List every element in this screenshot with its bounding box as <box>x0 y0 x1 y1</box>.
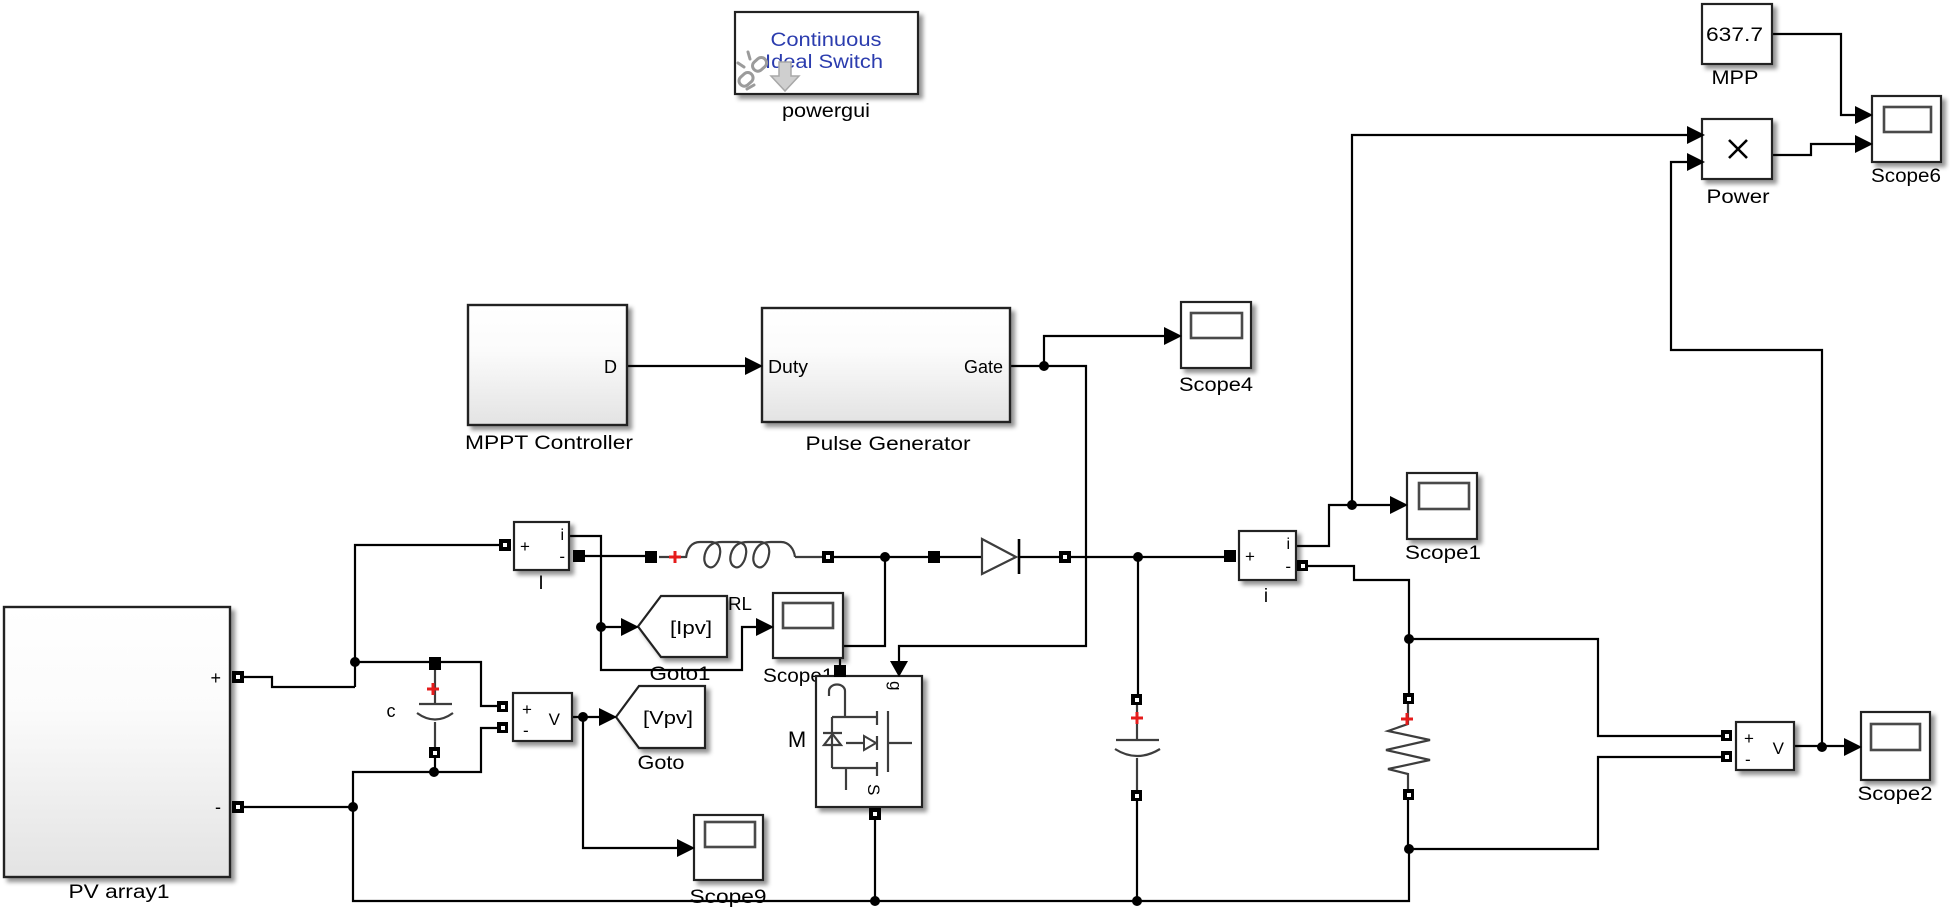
wire node K to Scope9 <box>583 717 679 848</box>
svg-text:PV array1: PV array1 <box>69 882 170 903</box>
port inductor right <box>822 551 834 563</box>
subsystem block PV array1 <box>4 607 230 877</box>
node D bottom rail mosfet <box>870 896 880 906</box>
svg-text:c: c <box>387 701 396 721</box>
svg-text:D: D <box>604 357 617 377</box>
wire node A to capacitor c top <box>355 661 431 663</box>
port MOSFET source <box>869 808 881 820</box>
arrowhead into Scope9 <box>677 839 695 857</box>
svg-text:i: i <box>1264 586 1268 607</box>
svg-text:S: S <box>864 784 883 795</box>
wire node J to V2 minus <box>1409 757 1722 849</box>
port capacitor c top <box>429 657 441 670</box>
voltage measurement Vpv <box>513 693 572 741</box>
port I1 minus output <box>573 550 585 562</box>
wire inductor right to diode left <box>833 556 930 558</box>
svg-text:Scope4: Scope4 <box>1179 375 1253 396</box>
goto tag Goto1 Ipv <box>638 596 727 657</box>
subsystem block Pulse Generator <box>762 308 1010 422</box>
port V2 minus <box>1721 751 1732 762</box>
goto tag Goto Vpv <box>616 686 705 748</box>
powergui block <box>735 12 918 94</box>
wire Scope2 junction up to Power input 2 <box>1671 162 1822 747</box>
wire i2 minus to node I <box>1308 566 1409 639</box>
svg-text:-: - <box>523 721 529 740</box>
scope Scope9 <box>694 815 763 880</box>
arrowhead into MOSFET gate <box>890 661 908 677</box>
svg-text:Pulse Generator: Pulse Generator <box>806 434 972 455</box>
wire node I to V2 plus <box>1409 639 1722 736</box>
wire node A up to I1 input <box>355 545 500 687</box>
svg-text:Gate: Gate <box>964 357 1003 377</box>
node E bottom rail capacitor <box>1132 896 1142 906</box>
node Scope2 junction <box>1817 742 1827 752</box>
arrowhead into Scope10 <box>756 618 774 636</box>
subsystem block MPPT Controller <box>468 305 627 425</box>
svg-text:-: - <box>215 797 221 817</box>
svg-text:-: - <box>1285 557 1291 576</box>
node I resistor top junction <box>1404 634 1414 644</box>
svg-text:Scope9: Scope9 <box>690 887 767 908</box>
port PV array minus <box>232 801 244 813</box>
output capacitor polarity mark <box>1131 712 1143 724</box>
wire capacitor c bottom to node B <box>434 758 436 772</box>
svg-text:Scope6: Scope6 <box>1871 166 1941 187</box>
wire Scope1 junction up to Power input 1 <box>1352 135 1689 505</box>
inductor RL coil <box>659 542 823 567</box>
wire capacitor c top to Vpv plus <box>440 662 498 706</box>
wire PV array plus to node A <box>244 677 355 687</box>
inductor polarity mark <box>669 551 681 563</box>
node F Ipv junction <box>596 622 606 632</box>
svg-text:Scope2: Scope2 <box>1858 784 1933 805</box>
voltage measurement V2 <box>1736 722 1794 770</box>
svg-text:+: + <box>1245 547 1255 566</box>
wire node B to Vpv minus <box>434 728 498 772</box>
capacitor c <box>417 670 453 750</box>
wire PV array minus to node C <box>244 806 353 808</box>
arrowhead into Scope6 input2 <box>1855 135 1873 153</box>
svg-text:V: V <box>1773 739 1785 758</box>
powergui broken link icon <box>737 52 769 89</box>
powergui down arrow icon <box>771 62 799 91</box>
wire node F to Goto1 <box>601 626 623 628</box>
current measurement I1 <box>514 522 569 570</box>
node A <box>350 657 360 667</box>
resistor polarity mark <box>1401 713 1413 725</box>
port diode anode <box>928 551 940 563</box>
wire diode right to i2 input <box>1070 556 1226 558</box>
port resistor top <box>1403 693 1414 704</box>
scope Scope10 <box>773 593 843 658</box>
svg-text:+: + <box>520 537 530 556</box>
arrowhead into Scope6 input1 <box>1855 106 1873 124</box>
svg-text:+: + <box>1744 729 1754 748</box>
svg-text:i: i <box>1286 536 1290 553</box>
arrowhead into Goto <box>599 708 617 726</box>
wire output capacitor bottom to rail <box>1136 800 1138 901</box>
arrowhead into Scope4 <box>1164 327 1182 345</box>
port MOSFET drain <box>834 665 846 677</box>
port capacitor c bottom <box>429 747 440 758</box>
capacitor c polarity mark <box>427 683 439 695</box>
svg-text:Continuous: Continuous <box>771 30 882 51</box>
product block Power <box>1702 119 1772 179</box>
diode D1 <box>940 539 1060 574</box>
resistor R load <box>1386 702 1430 791</box>
svg-text:Power: Power <box>1707 187 1771 208</box>
port i2 input <box>1224 550 1236 562</box>
wire I1 signal down <box>569 536 758 670</box>
wire Gate output to junction <box>1010 365 1044 367</box>
svg-text:powergui: powergui <box>782 101 870 122</box>
svg-text:[Ipv]: [Ipv] <box>670 618 712 638</box>
port V2 plus <box>1721 730 1732 741</box>
wire V2 output to Scope2 <box>1794 745 1846 747</box>
node G rail to mosfet drain <box>880 552 890 562</box>
port output capacitor bottom <box>1131 790 1142 801</box>
svg-text:-: - <box>1745 750 1751 769</box>
svg-text:g: g <box>886 681 905 690</box>
arrowhead into Pulse Generator Duty <box>745 357 763 375</box>
port resistor bottom <box>1403 789 1414 800</box>
scope Scope6 <box>1872 96 1941 162</box>
wire node H down to output capacitor top <box>1137 557 1139 695</box>
svg-text:Scope1: Scope1 <box>1405 543 1481 564</box>
wire junction to Scope4 <box>1044 336 1166 366</box>
wire I1 minus to inductor left <box>584 555 647 557</box>
node B <box>429 767 439 777</box>
wire Power output to Scope6 input 2 <box>1772 144 1857 155</box>
svg-text:637.7: 637.7 <box>1706 25 1763 46</box>
svg-text:Goto1: Goto1 <box>650 664 711 685</box>
port I1 input <box>499 539 511 551</box>
node K Vpv junction <box>578 712 588 722</box>
node C <box>348 802 358 812</box>
scope Scope4 <box>1181 302 1251 368</box>
display block MPP value 637.7 <box>1702 4 1772 64</box>
output capacitor C2 <box>1115 704 1160 792</box>
svg-text:+: + <box>210 668 221 688</box>
node J resistor bottom junction <box>1404 844 1414 854</box>
wire resistor bottom to node J <box>1407 799 1409 849</box>
wire bottom rail <box>353 807 1409 901</box>
svg-text:+: + <box>522 700 532 719</box>
arrowhead into Goto1 <box>621 618 639 636</box>
mosfet block M <box>816 676 922 807</box>
svg-text:Duty: Duty <box>768 357 808 377</box>
svg-text:i: i <box>560 527 564 544</box>
port diode cathode <box>1059 551 1071 563</box>
node Scope1 junction <box>1347 500 1357 510</box>
svg-text:Goto: Goto <box>638 753 685 774</box>
scope Scope2 <box>1861 712 1930 780</box>
wire MOSFET source to bottom rail <box>874 819 876 901</box>
port inductor left <box>645 551 657 563</box>
svg-text:RL: RL <box>728 594 752 614</box>
port Vpv minus <box>497 722 508 733</box>
arrowhead into Scope2 <box>1844 738 1862 756</box>
svg-text:MPP: MPP <box>1712 68 1759 89</box>
node H rail to output capacitor <box>1133 552 1143 562</box>
wire node B to node C <box>353 772 434 807</box>
svg-text:MPPT Controller: MPPT Controller <box>465 433 634 454</box>
wire node I to resistor top <box>1408 639 1410 694</box>
wire i2 signal to Scope1 <box>1296 505 1392 546</box>
arrowhead into Scope1 <box>1390 496 1408 514</box>
port output capacitor top <box>1131 694 1142 705</box>
svg-text:[Vpv]: [Vpv] <box>643 708 693 728</box>
scope Scope1 <box>1407 473 1477 539</box>
port i2 minus output <box>1297 560 1308 571</box>
node gate junction <box>1039 361 1049 371</box>
wire node G to MOSFET drain <box>840 557 885 666</box>
port Vpv plus <box>497 701 508 712</box>
arrowhead into Power input1 <box>1687 126 1705 144</box>
svg-text:M: M <box>788 727 806 752</box>
port PV array plus <box>232 671 244 683</box>
svg-text:V: V <box>549 710 561 729</box>
svg-text:I: I <box>538 573 543 594</box>
wire junction to MOSFET gate <box>899 366 1086 665</box>
wire MPPT D to Pulse Generator Duty <box>627 365 748 367</box>
wire Vpv output to Goto <box>572 716 601 718</box>
svg-text:-: - <box>559 547 565 566</box>
arrowhead into Power input2 <box>1687 153 1705 171</box>
current measurement i2 <box>1239 531 1296 580</box>
wire MPP display to Scope6 input 1 <box>1773 34 1857 115</box>
